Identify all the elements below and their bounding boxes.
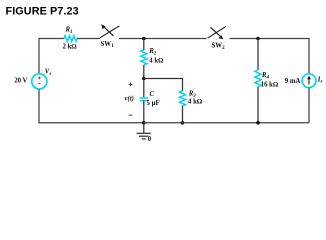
wire SW2 to top-right corner, junction at R4: [230, 39, 310, 75]
junction top of R4: [256, 37, 260, 41]
minus sign inside source: [38, 83, 41, 85]
resistor R3: [180, 91, 186, 106]
ground: [137, 123, 151, 139]
current source Is 9 mA: [302, 74, 316, 88]
svg-text:SW2: SW2: [212, 43, 226, 51]
svg-text:R1: R1: [65, 27, 73, 35]
resistor R2 branch wire top: [143, 39, 145, 51]
junction top of R2: [142, 37, 146, 41]
svg-text:R3: R3: [188, 91, 197, 99]
wire middle node to capacitor: [143, 79, 145, 98]
svg-text:4 kΩ: 4 kΩ: [149, 58, 164, 65]
wire R4 to bottom wire: [257, 87, 259, 123]
wire capacitor to bottom wire: [143, 101, 145, 123]
junction middle node: [142, 77, 146, 81]
svg-text:FIGURE P7.23: FIGURE P7.23: [6, 5, 79, 17]
svg-text:4 kΩ: 4 kΩ: [188, 99, 203, 106]
svg-text:R4: R4: [261, 72, 270, 80]
svg-text:Vs: Vs: [45, 69, 52, 77]
wire top-left: corner to R1: [39, 39, 64, 74]
svg-text:16 kΩ: 16 kΩ: [261, 82, 279, 89]
capacitor C: [140, 98, 148, 101]
wire R1 to SW1: [77, 38, 100, 40]
resistor R1: [64, 36, 77, 42]
svg-text:0: 0: [148, 136, 152, 143]
svg-text:9 mA: 9 mA: [285, 78, 301, 85]
wire current source to bottom-right corner: [308, 88, 310, 123]
svg-text:R2: R2: [148, 48, 157, 56]
switch SW2: [208, 26, 227, 39]
wire SW1 to SW2 with junction at node of R2: [119, 38, 207, 40]
label minus of v(t): [129, 114, 133, 116]
junction bottom of R3: [181, 121, 185, 125]
bottom wire middle: [144, 122, 309, 124]
junction bottom of capacitor: [142, 121, 146, 125]
resistor R4: [255, 70, 261, 87]
wire middle node to R3 branch: [144, 79, 183, 92]
voltage source Vs 20V: [32, 74, 47, 89]
svg-text:SW1: SW1: [101, 41, 115, 49]
svg-text:v(t): v(t): [125, 95, 134, 102]
svg-text:20 V: 20 V: [14, 77, 27, 84]
resistor R2: [141, 50, 147, 65]
junction bottom of R4: [256, 121, 260, 125]
wire R4 branch top: [257, 39, 259, 71]
wire R2 to middle node: [143, 65, 145, 79]
svg-text:2 kΩ: 2 kΩ: [63, 44, 78, 51]
svg-text:5 μF: 5 μF: [147, 100, 160, 107]
arrow inside current source: [307, 76, 311, 85]
svg-text:Is: Is: [317, 76, 323, 84]
label plus of v(t): [129, 83, 133, 87]
switch SW1: [100, 24, 120, 38]
wire Vs to bottom-left corner: [39, 89, 144, 123]
svg-text:C: C: [150, 91, 155, 98]
plus sign inside source: [38, 77, 41, 84]
wire R3 to bottom wire: [182, 106, 184, 123]
